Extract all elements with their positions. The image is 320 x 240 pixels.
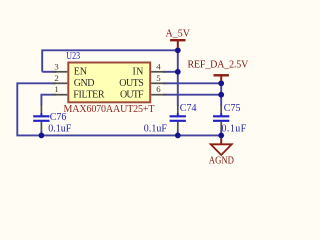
wire pin1 to C76 top lead	[41, 95, 56, 106]
wire pin4 to A_5V column	[163, 71, 178, 73]
junction node at pin4 IN	[175, 69, 181, 75]
capacitor C76 top pin	[40, 105, 42, 114]
svg-text:EN: EN	[74, 67, 87, 78]
svg-text:0.1uF: 0.1uF	[48, 123, 72, 134]
svg-text:0.1uF: 0.1uF	[222, 123, 247, 134]
ground AGND stem	[220, 139, 222, 144]
svg-text:5: 5	[156, 73, 161, 83]
junction node at A_5V top wire	[175, 47, 181, 53]
wire A_5V vertical down to C74	[177, 48, 179, 106]
wire C75 vertical REF column	[220, 80, 222, 106]
svg-text:C74: C74	[180, 103, 197, 114]
capacitor C75 bottom pin	[220, 122, 222, 131]
svg-text:1: 1	[54, 84, 58, 94]
wire AGND stub	[220, 135, 222, 139]
svg-text:OUTS: OUTS	[119, 78, 144, 89]
junction node at pin6 OUTF	[218, 92, 224, 98]
capacitor C76 plates	[33, 115, 49, 117]
wire top A_5V rail to pin3 corner	[42, 50, 178, 72]
wire pin3 stub	[42, 71, 56, 73]
capacitor C74 top pin	[177, 105, 179, 114]
svg-text:REF_DA_2.5V: REF_DA_2.5V	[188, 60, 250, 71]
wire C76 bottom lead	[40, 130, 42, 135]
svg-text:GND: GND	[74, 78, 95, 89]
svg-text:A_5V: A_5V	[166, 29, 191, 40]
wire C75 bottom lead	[220, 130, 222, 136]
svg-text:0.1uF: 0.1uF	[144, 123, 168, 134]
pin 2 line	[52, 82, 67, 84]
power port REF_DA_2.5V bar	[214, 74, 229, 76]
power port A_5V bar	[170, 39, 185, 41]
capacitor C74 bottom pin	[177, 122, 179, 131]
capacitor C75 plates	[213, 115, 229, 117]
svg-text:OUTF: OUTF	[120, 89, 144, 100]
wire C74 bottom lead	[177, 130, 179, 135]
svg-text:FILTER: FILTER	[73, 89, 105, 100]
junction node at C75 ground	[218, 133, 224, 139]
wire pin6 OUTF to REF column	[163, 94, 221, 96]
pin 1 line	[52, 94, 67, 96]
wire pin2 to left vertical and bottom ground rail	[17, 83, 221, 135]
svg-text:3: 3	[54, 61, 59, 71]
svg-text:AGND: AGND	[209, 156, 234, 167]
pin 4 line	[151, 71, 166, 73]
svg-text:2: 2	[54, 73, 58, 83]
pin 5 line	[151, 82, 166, 84]
power port A_5V stem	[177, 40, 179, 48]
svg-text:C76: C76	[50, 112, 67, 123]
svg-text:C75: C75	[224, 103, 241, 114]
capacitor C76 bottom pin	[40, 122, 42, 131]
junction node at pin5 OUTS	[218, 80, 224, 86]
pin 3 line	[52, 71, 67, 73]
svg-text:4: 4	[156, 61, 161, 71]
ground AGND triangle	[211, 144, 232, 155]
capacitor C75 top pin	[220, 105, 222, 114]
junction node at C76 ground	[39, 133, 45, 139]
svg-text:U23: U23	[66, 50, 80, 61]
junction node at C74 ground	[175, 133, 181, 139]
IC U23 body	[68, 63, 150, 103]
svg-text:6: 6	[156, 84, 161, 94]
pin 6 line	[151, 94, 166, 96]
capacitor C74 plates	[170, 115, 186, 117]
wire pin5 OUTS to REF column	[163, 82, 221, 84]
power port REF_DA_2.5V stem	[220, 75, 222, 81]
svg-text:MAX6070AAUT25+T: MAX6070AAUT25+T	[64, 104, 155, 115]
svg-text:IN: IN	[133, 67, 144, 78]
